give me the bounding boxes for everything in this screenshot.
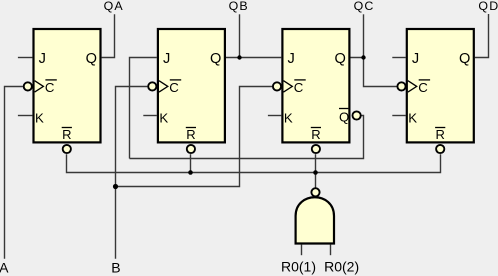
svg-text:K: K xyxy=(408,110,417,125)
flip-flop U3 box xyxy=(273,29,361,153)
wire FF3 Q to QC and FF4 C xyxy=(351,58,397,87)
svg-text:J: J xyxy=(39,51,46,67)
junction dots xyxy=(113,55,366,189)
svg-text:Q: Q xyxy=(86,51,97,67)
wire FF2 R drop xyxy=(190,154,192,172)
wire FF3 Qbar feedback to FF2 J xyxy=(130,116,364,159)
node B junction xyxy=(113,184,118,189)
wire FF3 R drop to NAND output xyxy=(315,154,317,188)
overbar C U3 xyxy=(294,79,305,81)
port labels xyxy=(104,0,498,13)
NAND output bubble xyxy=(311,188,319,196)
wire QC tap xyxy=(363,14,365,57)
svg-text:R0(2): R0(2) xyxy=(324,259,359,275)
node QC junction xyxy=(361,55,365,59)
svg-text:QA: QA xyxy=(104,0,124,13)
clock triangle U2 xyxy=(159,81,168,92)
R bubble U4 xyxy=(436,145,444,153)
node reset junction FF2 xyxy=(188,170,193,175)
overbar R U3 xyxy=(311,127,321,129)
wire FF1 Q to QA xyxy=(102,14,115,57)
node reset junction FF3 xyxy=(313,170,318,175)
svg-text:C: C xyxy=(45,80,55,95)
C bubble U3 xyxy=(273,82,281,90)
svg-text:R0(1): R0(1) xyxy=(281,259,316,275)
R bubble U1 xyxy=(63,145,71,153)
svg-text:A: A xyxy=(0,260,9,276)
R bubble U2 xyxy=(187,145,195,153)
svg-text:C: C xyxy=(169,80,179,95)
wire FF4 K stub xyxy=(392,115,405,117)
svg-text:K: K xyxy=(35,110,44,125)
svg-text:R: R xyxy=(311,127,320,142)
C bubble U4 xyxy=(397,82,405,90)
wire B input: up to FF2 C xyxy=(116,87,148,259)
svg-text:QB: QB xyxy=(229,0,249,13)
wire FF2 J from below xyxy=(130,58,157,159)
svg-text:K: K xyxy=(284,110,293,125)
overbar R U2 xyxy=(186,127,196,129)
svg-text:QC: QC xyxy=(354,0,375,13)
R bubble U3 xyxy=(312,145,320,153)
flip-flop U2 box xyxy=(148,29,225,153)
wire FF4 J stub xyxy=(392,57,405,59)
clock triangle U4 xyxy=(408,81,417,92)
svg-text:C: C xyxy=(294,80,304,95)
wire FF2 Q to FF3 J xyxy=(226,57,281,59)
wire R0(1) input stub xyxy=(301,245,303,256)
overbar C U1 xyxy=(45,79,56,81)
wire reset bus xyxy=(67,154,441,172)
wire R0(2) input stub xyxy=(330,245,332,256)
svg-text:Q: Q xyxy=(335,51,346,67)
clock triangle U1 xyxy=(35,81,44,92)
svg-text:J: J xyxy=(163,51,170,67)
svg-text:Q: Q xyxy=(339,109,349,124)
C bubble U2 xyxy=(148,82,156,90)
overbar R U4 xyxy=(435,127,445,129)
svg-text:R: R xyxy=(62,127,71,142)
flip-flop U1 box xyxy=(24,29,101,153)
svg-text:Q: Q xyxy=(210,51,221,67)
overbar C U4 xyxy=(419,79,430,81)
wire FF1 J stub xyxy=(18,57,33,59)
wire FF2 K stub xyxy=(143,115,157,117)
overbar R U1 xyxy=(62,127,72,129)
node QB junction xyxy=(237,55,241,59)
overbar C U2 xyxy=(170,79,181,81)
clock triangle U3 xyxy=(284,81,293,92)
wire FF4 Q to QD xyxy=(475,14,489,58)
wire A input: up to FF1 C xyxy=(5,87,23,259)
svg-text:QD: QD xyxy=(478,0,498,13)
svg-text:R: R xyxy=(186,127,195,142)
svg-text:Q: Q xyxy=(459,51,470,67)
svg-text:J: J xyxy=(412,51,419,67)
flip-flop U4 box xyxy=(397,29,473,153)
wire QB tap xyxy=(239,14,241,57)
wire FF3 K stub xyxy=(268,115,281,117)
svg-text:J: J xyxy=(288,51,295,67)
wire FF1 K stub xyxy=(18,115,33,117)
svg-text:C: C xyxy=(418,80,428,95)
Qbar bubble U3 xyxy=(353,111,361,119)
svg-text:B: B xyxy=(111,260,120,276)
NAND gate reset xyxy=(296,188,334,243)
wire B branch to FF3 C xyxy=(116,87,273,187)
overbar Qbar U3 xyxy=(339,108,348,110)
svg-text:R: R xyxy=(436,127,445,142)
C bubble U1 xyxy=(24,82,32,90)
svg-text:K: K xyxy=(159,110,168,125)
